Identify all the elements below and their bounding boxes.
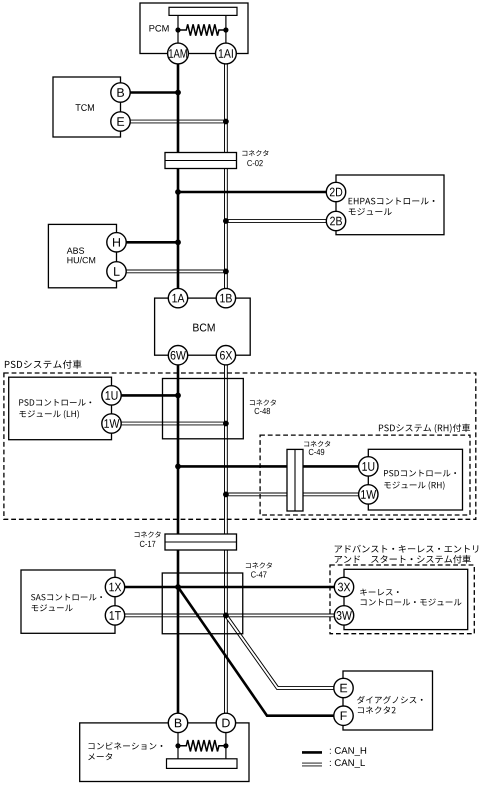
node PCM resistor right: [223, 27, 228, 32]
wire CAN_H bus vertical upper: [177, 63, 180, 288]
label ABS HU/CM: [67, 247, 84, 253]
connector C-17: [165, 534, 237, 550]
label diagnosis line2 (JP): [358, 706, 396, 713]
pin 1T (SAS): [105, 606, 124, 625]
pin B (meter): [168, 713, 187, 732]
wire TCM B to CAN_H: [130, 91, 178, 94]
legend CAN_H sample line: [302, 751, 322, 754]
label PSD LH module line2 (JP): [19, 410, 79, 419]
label connector C-17 (JP): [135, 531, 161, 537]
wire CAN_H bus vertical lower: [177, 365, 180, 714]
wire CAN_H branch to PSD RH 1U: [178, 465, 359, 468]
wire EHPAS 2B to CAN_L: [226, 219, 326, 223]
diagnosis connector box: [343, 671, 433, 730]
PSD system dashed box: [4, 373, 476, 519]
pin 1B (BCM): [216, 288, 235, 307]
label connector C-02 (JP): [242, 150, 268, 156]
label keyless module line2 (JP): [361, 599, 462, 606]
label BCM: [193, 324, 214, 332]
ABS box: [48, 224, 116, 287]
label meter line2 (JP): [88, 753, 112, 760]
wire CAN_H to EHPAS 2D: [178, 191, 326, 194]
label keyless system line1 (JP): [335, 545, 479, 553]
pin 1AM (PCM CAN_H): [168, 43, 189, 64]
pin 1U (PSD RH): [359, 457, 378, 476]
pin L (ABS): [107, 262, 126, 281]
BCM box: [155, 298, 251, 355]
pin F (diagnosis): [334, 706, 353, 725]
PSD RH system dashed box: [260, 435, 470, 515]
pin E (diagnosis): [334, 678, 353, 697]
combination meter box: [80, 723, 249, 782]
node SAS 1T junction: [223, 613, 229, 619]
wire CAN_H diagonal to diag connector F: [178, 587, 334, 716]
pin H (ABS): [107, 233, 126, 252]
PCM terminator resistor bar: [169, 7, 237, 15]
resistor meter 120ohm: [178, 740, 226, 751]
node SAS 1X junction: [175, 584, 181, 590]
pin 2B (EHPAS): [326, 211, 345, 230]
pin 6X (BCM): [216, 346, 235, 365]
label SAS module line1 (JP): [31, 594, 102, 601]
label PSD system (JP): [5, 360, 82, 369]
label TCM: [76, 104, 94, 111]
node EHPAS 2B junction: [223, 218, 229, 224]
label EHPAS module line2 (JP): [349, 208, 392, 215]
pin 1A (BCM): [168, 288, 187, 307]
pin D (meter): [216, 713, 235, 732]
SAS module box: [21, 570, 115, 633]
PSD RH module box: [368, 449, 462, 510]
node TCM B junction: [175, 90, 181, 96]
label keyless system line2 (JP): [335, 555, 471, 563]
label C-47: [251, 571, 266, 577]
pin B (TCM): [111, 83, 130, 102]
label C-48: [255, 408, 271, 414]
label connector C-47 (JP): [246, 562, 272, 568]
wire PSD LH 1U to CAN_H: [121, 394, 178, 397]
node ABS H junction: [175, 239, 181, 245]
legend CAN_L label: [330, 759, 365, 768]
pin 6W (BCM): [168, 346, 187, 365]
advanced keyless dashed box: [330, 565, 474, 634]
label C-02: [247, 160, 262, 166]
label diagnosis line1 (JP): [357, 696, 423, 704]
keyless module box: [344, 569, 468, 629]
label keyless module line1 (JP): [360, 589, 398, 596]
pin 1U (PSD LH): [102, 386, 121, 405]
label C-49: [309, 449, 324, 455]
EHPAS box: [336, 175, 444, 235]
label meter line1 (JP): [89, 742, 163, 750]
label connector C-49 (JP): [304, 441, 330, 447]
label PSD LH module line1 (JP): [19, 399, 91, 406]
node meter resistor right: [223, 743, 228, 748]
legend CAN_H label: [330, 747, 366, 756]
wire meter internal verticals: [178, 733, 226, 759]
wire ABS H to CAN_H: [126, 241, 178, 244]
wire TCM E to CAN_L: [130, 120, 226, 124]
label PSD RH system (JP): [379, 424, 470, 433]
pin 2D (EHPAS): [326, 182, 345, 201]
resistor PCM 120ohm: [178, 24, 226, 35]
pin 1AI (PCM CAN_L): [216, 43, 237, 64]
pin 1W (PSD LH): [102, 414, 121, 433]
label PCM: [149, 25, 168, 32]
label connector C-48 (JP): [250, 399, 276, 405]
pin 3X (keyless): [334, 577, 353, 596]
node PSD LH 1U junction: [175, 393, 181, 399]
PSD LH module box: [9, 377, 112, 440]
node meter resistor left: [175, 743, 180, 748]
connector C-48 box: [163, 379, 244, 439]
label PSD RH module line2 (JP): [384, 481, 444, 490]
wire SAS 1T to keyless 3W CAN_L: [125, 614, 335, 618]
wire CAN_L bus vertical upper: [224, 63, 228, 288]
node PCM resistor left: [175, 27, 180, 32]
label SAS module line2 (JP): [32, 604, 73, 611]
wire SAS 1X to keyless 3X CAN_H: [125, 586, 335, 589]
connector C-49: [287, 449, 303, 511]
node TCM E junction: [223, 119, 229, 125]
node PSD RH branch L junction: [223, 492, 229, 498]
wire PCM internal verticals: [178, 15, 226, 43]
node EHPAS 2D junction: [175, 189, 181, 195]
wire PSD LH 1W to CAN_L: [121, 422, 226, 426]
node ABS L junction: [223, 269, 229, 275]
pin 1W (PSD RH): [359, 485, 378, 504]
pin E (TCM): [111, 112, 130, 131]
label C-17: [140, 541, 155, 547]
pin 3W (keyless): [334, 606, 353, 625]
wire CAN_L bus vertical lower: [224, 365, 228, 714]
connector C-47 box: [162, 573, 243, 634]
combination meter terminator bar: [167, 759, 238, 769]
legend CAN_L sample line: [302, 763, 322, 767]
node PSD RH branch H junction: [175, 464, 181, 470]
wire CAN_L branch to PSD RH 1W: [226, 492, 359, 496]
pin 1X (SAS): [105, 577, 124, 596]
label EHPAS module line1 (JP): [349, 197, 435, 204]
wire CAN_L diagonal to diag connector E: [226, 615, 334, 688]
TCM box: [53, 77, 121, 137]
wire ABS L to CAN_L: [126, 269, 226, 273]
PCM box: [140, 3, 248, 54]
node PSD LH 1W junction: [223, 421, 229, 427]
label PSD RH module line1 (JP): [384, 470, 456, 477]
connector C-02: [165, 153, 237, 169]
